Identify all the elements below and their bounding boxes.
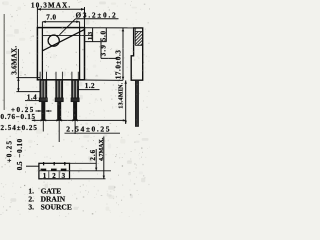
svg-text:0.5: 0.5 bbox=[16, 161, 24, 170]
svg-text:2.54±0.25: 2.54±0.25 bbox=[66, 124, 111, 133]
svg-text:13.4MIN.: 13.4MIN. bbox=[118, 82, 124, 108]
svg-text:7.0: 7.0 bbox=[46, 13, 56, 21]
svg-text:3: 3 bbox=[62, 172, 66, 180]
svg-text:−0.10: −0.10 bbox=[16, 138, 24, 157]
svg-text:17.0±0.3: 17.0±0.3 bbox=[115, 50, 123, 80]
svg-text:+0.25: +0.25 bbox=[5, 140, 13, 163]
svg-text:2.54±0.25: 2.54±0.25 bbox=[1, 124, 38, 132]
svg-text:0.76−0.15: 0.76−0.15 bbox=[1, 113, 36, 121]
svg-text:2: 2 bbox=[52, 172, 56, 180]
svg-text:SOURCE: SOURCE bbox=[41, 202, 72, 211]
svg-text:3.6MAX.: 3.6MAX. bbox=[11, 46, 19, 75]
svg-text:1.2: 1.2 bbox=[85, 82, 95, 90]
svg-text:1: 1 bbox=[43, 172, 47, 180]
